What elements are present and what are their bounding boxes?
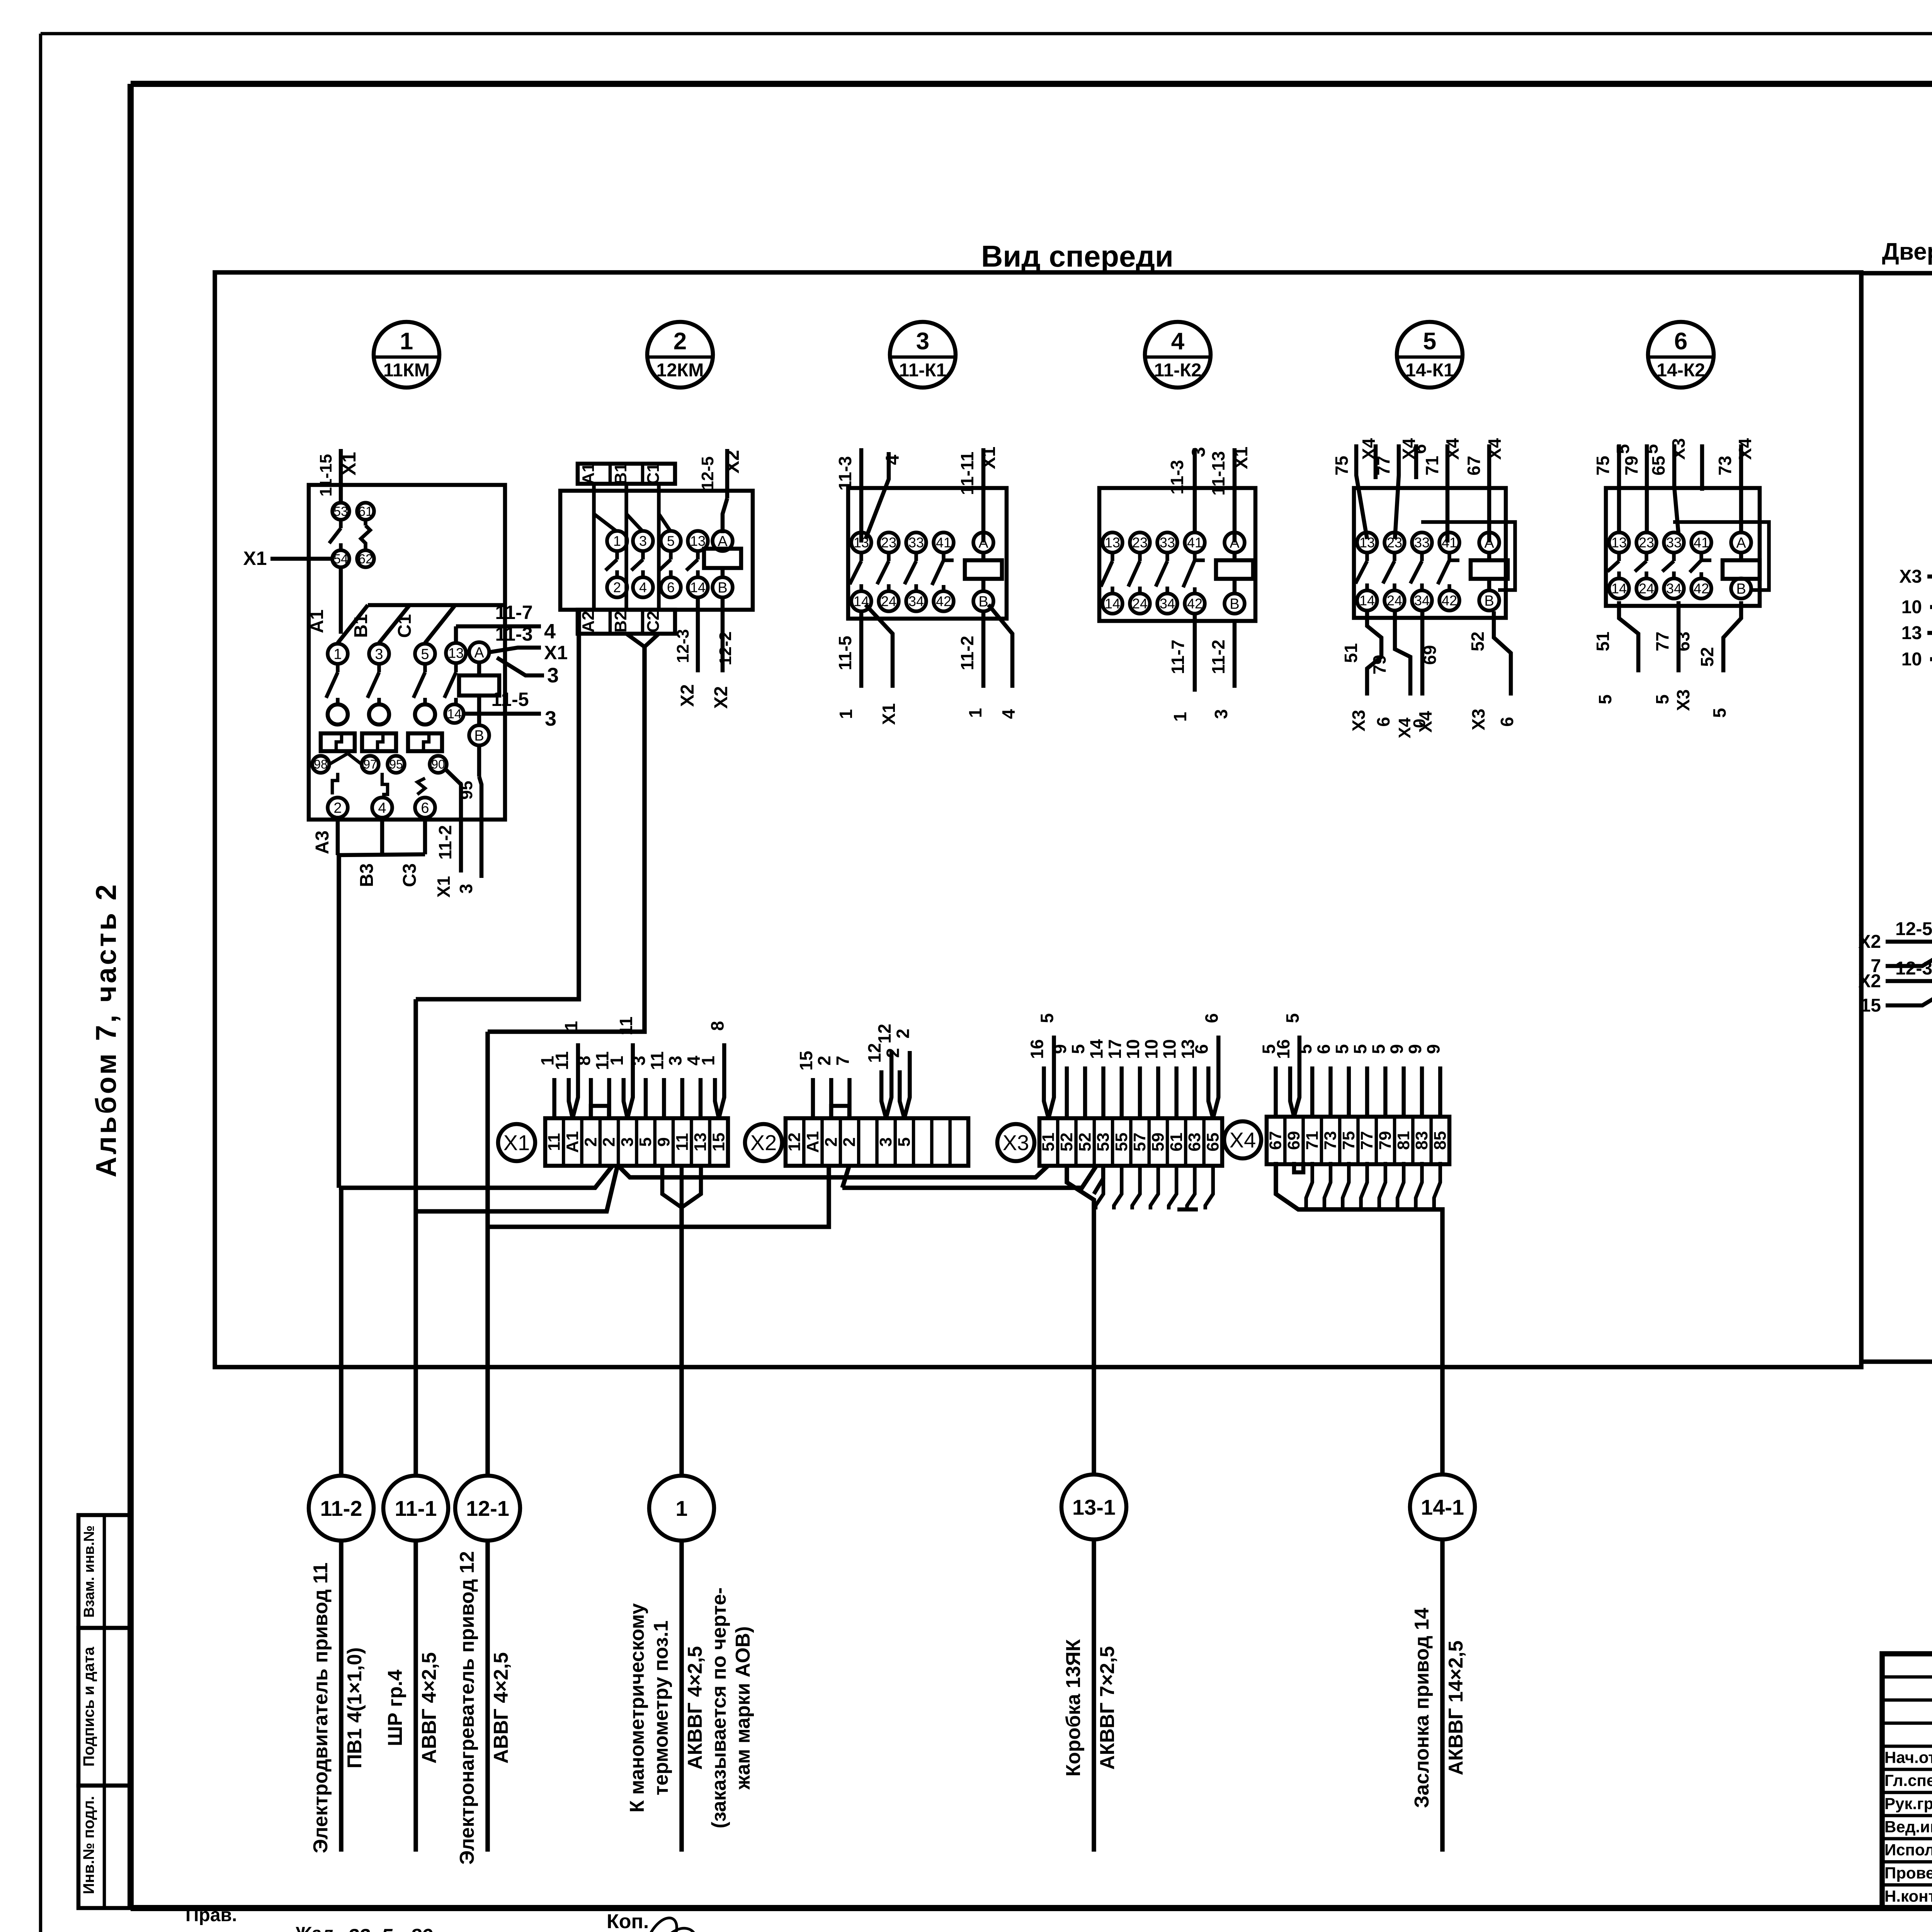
svg-text:12-2: 12-2 xyxy=(716,631,735,665)
position circle 3 11-К1 xyxy=(890,322,956,388)
X2 top jumper wires xyxy=(796,1024,913,1118)
svg-text:Рук.гр.: Рук.гр. xyxy=(1884,1794,1932,1813)
svg-text:5: 5 xyxy=(1613,444,1633,454)
lead 11-2 1 4 from 11-К1 coil B xyxy=(957,605,1019,719)
svg-text:3: 3 xyxy=(629,1056,649,1066)
svg-text:3: 3 xyxy=(1211,709,1231,719)
cable group bottom xyxy=(0,0,0,0)
terminal strip X4 designator circle xyxy=(1224,1121,1261,1158)
svg-text:12: 12 xyxy=(864,1043,884,1063)
svg-text:X4: X4 xyxy=(1485,438,1505,460)
svg-text:X2: X2 xyxy=(1858,971,1881,992)
cable 14-1 line and labels xyxy=(1411,1539,1467,1852)
lead 11-7 1 from 11-К2 contact 42 xyxy=(1168,614,1195,722)
svg-text:(заказывается по черте-: (заказывается по черте- xyxy=(708,1587,730,1828)
relay coil A-B xyxy=(1471,532,1508,611)
svg-text:15: 15 xyxy=(1861,995,1881,1016)
svg-text:5: 5 xyxy=(895,1137,913,1146)
svg-text:X3: X3 xyxy=(1349,710,1369,731)
svg-text:X4: X4 xyxy=(1230,1128,1256,1152)
contactor 2 bottom leads 12-3 12-2 xyxy=(673,597,735,709)
svg-text:X3: X3 xyxy=(1668,438,1689,460)
svg-text:Взам. инв.№: Взам. инв.№ xyxy=(81,1526,97,1618)
svg-text:5: 5 xyxy=(1037,1013,1057,1023)
terminal strip X2 designator circle xyxy=(745,1124,782,1161)
svg-text:11-5: 11-5 xyxy=(835,636,855,670)
svg-text:10: 10 xyxy=(1141,1039,1161,1059)
contactor 2 12КМ feeder cells A2 B2 C2 xyxy=(578,610,675,634)
wire 11-2 cable down xyxy=(339,1188,344,1476)
svg-text:10: 10 xyxy=(1123,1039,1143,1059)
svg-text:42: 42 xyxy=(1694,581,1709,597)
terminal strip X1 designator circle xyxy=(498,1124,535,1161)
svg-text:6: 6 xyxy=(1410,444,1430,454)
svg-text:14: 14 xyxy=(690,580,706,595)
svg-text:5: 5 xyxy=(1282,1013,1303,1023)
11КМ pole contacts xyxy=(326,664,456,705)
label 95 from coil B xyxy=(457,781,476,800)
svg-text:83: 83 xyxy=(1412,1131,1431,1150)
svg-text:X2: X2 xyxy=(721,450,743,473)
cable circle 12-1 xyxy=(455,1476,520,1541)
svg-text:Прав.: Прав. xyxy=(185,1905,237,1925)
svg-text:71: 71 xyxy=(1422,456,1442,475)
wire feeder vertical from 12КМ box xyxy=(416,610,579,999)
svg-text:3: 3 xyxy=(1189,447,1209,457)
svg-text:1: 1 xyxy=(607,1056,627,1066)
svg-text:1: 1 xyxy=(333,646,342,662)
svg-text:A1: A1 xyxy=(579,463,598,485)
svg-text:A3: A3 xyxy=(312,830,333,854)
svg-text:2: 2 xyxy=(613,580,621,595)
svg-text:41: 41 xyxy=(1694,535,1709,551)
svg-text:69: 69 xyxy=(1284,1131,1303,1150)
svg-text:2: 2 xyxy=(581,1137,600,1146)
svg-text:34: 34 xyxy=(908,594,924,609)
position circle 5 14-К1 xyxy=(1397,322,1463,388)
svg-text:13: 13 xyxy=(690,533,706,549)
svg-text:ПВ1 4(1×1,0): ПВ1 4(1×1,0) xyxy=(344,1647,366,1768)
svg-text:Альбом 7, часть 2: Альбом 7, часть 2 xyxy=(90,882,122,1177)
svg-text:33: 33 xyxy=(1666,535,1682,551)
X4 top jumper wires xyxy=(1259,1013,1444,1117)
svg-text:4: 4 xyxy=(883,454,903,465)
svg-text:9: 9 xyxy=(654,1137,673,1146)
contactor 2 12КМ feeder cells A1 B1 C1 xyxy=(578,463,675,610)
svg-text:8: 8 xyxy=(707,1021,727,1031)
svg-text:12-1: 12-1 xyxy=(466,1496,509,1520)
wire X4 cell drops xyxy=(1306,1162,1440,1209)
svg-text:5: 5 xyxy=(667,533,675,549)
svg-text:2: 2 xyxy=(840,1137,859,1146)
svg-text:5: 5 xyxy=(1295,1044,1315,1054)
svg-text:95: 95 xyxy=(389,757,403,771)
svg-text:16: 16 xyxy=(1273,1039,1293,1059)
svg-text:24: 24 xyxy=(881,594,896,609)
svg-text:13: 13 xyxy=(1611,535,1627,551)
svg-text:11-3: 11-3 xyxy=(835,456,855,491)
svg-text:42: 42 xyxy=(1442,593,1457,609)
svg-text:42: 42 xyxy=(936,594,951,609)
button diagonal lead 7 xyxy=(1871,945,1932,976)
svg-text:3: 3 xyxy=(665,1056,685,1066)
svg-text:63: 63 xyxy=(1185,1133,1204,1151)
svg-text:Н.контр.: Н.контр. xyxy=(1884,1887,1932,1905)
svg-text:12: 12 xyxy=(874,1024,895,1043)
svg-text:12-3: 12-3 xyxy=(673,629,692,663)
svg-text:Коп.: Коп. xyxy=(607,1910,649,1932)
svg-text:52: 52 xyxy=(1075,1133,1094,1151)
svg-text:98: 98 xyxy=(314,757,328,771)
front view enclosure rectangle xyxy=(215,272,1861,1367)
handwritten date xyxy=(293,1923,449,1932)
svg-text:2: 2 xyxy=(821,1137,840,1146)
wires 75 79 65 73 into 14-К2 xyxy=(1593,438,1755,534)
svg-text:11-2: 11-2 xyxy=(435,825,455,860)
svg-text:23: 23 xyxy=(881,535,896,551)
svg-text:90: 90 xyxy=(431,757,445,771)
svg-text:B1: B1 xyxy=(611,463,630,485)
svg-text:3: 3 xyxy=(618,1137,637,1146)
11КМ thermal contact 61-62 xyxy=(357,503,374,567)
svg-text:9: 9 xyxy=(1423,1044,1443,1054)
svg-text:77: 77 xyxy=(1373,456,1393,475)
svg-text:C3: C3 xyxy=(400,863,420,887)
svg-text:11: 11 xyxy=(673,1133,692,1151)
svg-text:8: 8 xyxy=(574,1056,594,1066)
cable circle 1 xyxy=(649,1476,714,1541)
wire bus 3074 X2 to X3-52 xyxy=(842,1165,1097,1188)
svg-text:11-3: 11-3 xyxy=(495,623,532,645)
svg-text:11-11: 11-11 xyxy=(957,452,977,495)
svg-text:B: B xyxy=(1736,581,1746,597)
wire thermometer cable 1 from X1 cells 9 11 13 xyxy=(662,1166,701,1476)
relay box xyxy=(1606,488,1760,606)
wire 11-1 cable down xyxy=(413,999,418,1476)
wire 12-5 X2 into contactor 2 coil xyxy=(698,449,743,533)
wire 13-1 cable from X3 xyxy=(1067,1166,1103,1475)
svg-text:Провер.: Провер. xyxy=(1884,1864,1932,1882)
svg-text:51: 51 xyxy=(1593,631,1613,651)
11КМ terminals 2 4 6 xyxy=(328,798,435,818)
svg-text:X3: X3 xyxy=(1899,566,1922,587)
X2 jumper loop cells 2-2 xyxy=(831,1106,849,1118)
svg-text:Дверь ящика(вид со стороны мон: Дверь ящика(вид со стороны монтажа) xyxy=(1882,238,1932,265)
svg-text:2: 2 xyxy=(814,1056,834,1066)
block 13-HG xyxy=(0,0,0,0)
svg-text:11-15: 11-15 xyxy=(316,454,335,497)
svg-text:1: 1 xyxy=(561,1021,581,1031)
cable 13-1 line and labels xyxy=(1062,1539,1119,1852)
svg-text:3: 3 xyxy=(639,533,647,549)
svg-text:3: 3 xyxy=(876,1137,895,1146)
wire long bus 3047 X1 to X3-51 xyxy=(618,1166,1048,1177)
wire from 54 down xyxy=(339,567,343,634)
leads 51 X3 79 69 52 from 14-К1 xyxy=(1341,611,1517,738)
button 12-SB2 xyxy=(0,0,0,0)
svg-text:9: 9 xyxy=(1050,1044,1070,1054)
11КМ trip linkages xyxy=(329,753,425,794)
svg-text:23: 23 xyxy=(1639,535,1654,551)
svg-text:24: 24 xyxy=(1639,581,1654,597)
contactor 5 14-К1 xyxy=(0,0,0,0)
11КМ bottom lead 11-2 xyxy=(434,769,481,898)
cable circle 11-2 xyxy=(309,1476,374,1541)
X1 jumper loop cells 2-2 xyxy=(591,1106,609,1118)
svg-text:X1: X1 xyxy=(979,447,999,469)
svg-text:5: 5 xyxy=(1652,694,1672,704)
position circle 2 12КМ xyxy=(647,322,713,388)
button diagonal lead 15 xyxy=(1861,985,1932,1016)
block 14-HG xyxy=(0,0,0,0)
svg-text:6: 6 xyxy=(1191,1044,1211,1054)
lamp 11-HL xyxy=(0,0,0,0)
lead 11-5 1 X1 from 11-К1 contact 14 xyxy=(835,605,899,725)
11КМ phase slant feeders A1 B1 C1 xyxy=(307,605,505,643)
svg-text:жам марки АОВ): жам марки АОВ) xyxy=(732,1626,754,1790)
svg-text:6: 6 xyxy=(1674,328,1687,355)
relay coil A-B xyxy=(965,532,1002,611)
svg-text:65: 65 xyxy=(1203,1133,1222,1151)
svg-text:75: 75 xyxy=(1332,456,1352,475)
main title block xyxy=(1882,1654,1932,1908)
svg-text:X2: X2 xyxy=(711,686,731,709)
relay contacts 13 23 33 41 xyxy=(1101,532,1205,614)
svg-text:4: 4 xyxy=(1171,328,1185,355)
svg-text:97: 97 xyxy=(363,757,377,771)
svg-text:X3: X3 xyxy=(1468,709,1488,730)
wire X3 group drops to bus xyxy=(1096,1166,1213,1209)
cable 12-1 line and labels xyxy=(456,1541,512,1865)
svg-text:11КМ: 11КМ xyxy=(383,360,430,381)
svg-text:71: 71 xyxy=(1303,1131,1321,1150)
svg-text:Вид спереди: Вид спереди xyxy=(981,239,1173,273)
svg-text:X1: X1 xyxy=(243,548,267,569)
leads 51 77 63 52 from 14-К2 xyxy=(1593,601,1741,718)
svg-text:B3: B3 xyxy=(357,863,377,887)
cable circle 13-1 xyxy=(1061,1475,1126,1539)
position circle 4 11-К2 xyxy=(1145,322,1211,388)
svg-text:12: 12 xyxy=(785,1133,804,1151)
wire bus X1 cell 2b xyxy=(416,1166,617,1211)
svg-text:55: 55 xyxy=(1112,1133,1131,1151)
svg-text:1: 1 xyxy=(1170,712,1190,722)
svg-text:B1: B1 xyxy=(351,614,371,638)
svg-text:73: 73 xyxy=(1715,456,1735,475)
contactor 2 coil A-B xyxy=(704,531,741,597)
svg-text:75: 75 xyxy=(1593,456,1613,475)
svg-text:Инв.№ подл.: Инв.№ подл. xyxy=(80,1796,97,1894)
svg-text:11-К2: 11-К2 xyxy=(1154,360,1202,381)
svg-text:A: A xyxy=(1736,535,1746,551)
svg-text:14-К2: 14-К2 xyxy=(1656,360,1705,381)
relay coil A-B xyxy=(1723,532,1760,599)
button 14-SB1 xyxy=(0,0,0,0)
wires 75 77 71 67 X4 into 14-К1 xyxy=(1332,438,1505,543)
svg-text:X4: X4 xyxy=(1415,711,1435,733)
cable circle 11-1 xyxy=(383,1476,448,1541)
svg-text:X2: X2 xyxy=(1858,932,1881,952)
svg-text:3: 3 xyxy=(545,707,556,730)
svg-text:2: 2 xyxy=(600,1137,619,1146)
svg-text:52: 52 xyxy=(1697,647,1717,667)
svg-text:75: 75 xyxy=(1339,1131,1358,1150)
relay contacts 13 23 33 41 xyxy=(1607,532,1711,599)
svg-text:2: 2 xyxy=(893,1029,913,1039)
wire bus to X2 A1 xyxy=(488,1164,829,1227)
svg-text:3: 3 xyxy=(456,884,476,894)
svg-text:79: 79 xyxy=(1369,655,1389,674)
svg-text:59: 59 xyxy=(1148,1133,1167,1151)
wire bus X1 to left xyxy=(339,1166,612,1188)
svg-text:51: 51 xyxy=(1341,643,1361,663)
svg-text:5: 5 xyxy=(421,646,429,662)
lead 11-2 3 from 11-К2 coil B xyxy=(1208,621,1235,719)
svg-text:АВВГ 4×2,5: АВВГ 4×2,5 xyxy=(418,1652,440,1764)
wire 11-3 4 into 11-К1 xyxy=(835,448,903,543)
svg-text:B2: B2 xyxy=(611,611,630,633)
wire feeder merge B2 C2 xyxy=(488,634,659,1032)
svg-text:Жал: Жал xyxy=(293,1923,333,1932)
contactor 4 11-К2 xyxy=(0,0,0,0)
cable 11-1 line and labels xyxy=(384,1541,440,1852)
svg-text:5: 5 xyxy=(1709,708,1730,718)
svg-text:14-К1: 14-К1 xyxy=(1405,360,1454,381)
wire 14-1 cable from X4 xyxy=(1276,1162,1442,1475)
svg-text:Электронагреватель привод 12: Электронагреватель привод 12 xyxy=(456,1551,478,1864)
svg-text:2: 2 xyxy=(673,328,687,355)
svg-text:6: 6 xyxy=(1373,717,1393,727)
svg-text:4: 4 xyxy=(998,709,1019,719)
relay contacts 13 23 33 41 xyxy=(1355,532,1459,611)
svg-text:11-2: 11-2 xyxy=(320,1496,362,1520)
button 13-SB2 xyxy=(0,0,0,0)
svg-text:6: 6 xyxy=(1314,1044,1334,1054)
wire X3 right drop 3047 xyxy=(1177,1207,1198,1212)
svg-text:41: 41 xyxy=(1187,535,1202,551)
terminal strip X3 designator circle xyxy=(997,1124,1034,1161)
svg-text:X2: X2 xyxy=(750,1131,777,1155)
svg-text:X1: X1 xyxy=(338,452,360,475)
svg-text:22 .5 - 89 г: 22 .5 - 89 г xyxy=(347,1925,449,1932)
door enclosure rectangle xyxy=(1861,273,1932,1362)
svg-text:24: 24 xyxy=(1132,596,1148,612)
contactor 3 11-К1 xyxy=(0,0,0,0)
svg-text:5: 5 xyxy=(1641,444,1662,454)
svg-text:57: 57 xyxy=(1130,1133,1149,1151)
relay box xyxy=(1354,488,1506,618)
svg-text:5: 5 xyxy=(1595,694,1615,704)
11КМ pole terminals 1 3 5 13 xyxy=(328,643,466,664)
svg-text:Вед.инж.: Вед.инж. xyxy=(1884,1818,1932,1836)
svg-text:67: 67 xyxy=(1464,456,1484,475)
svg-text:51: 51 xyxy=(1039,1133,1058,1151)
svg-text:14-1: 14-1 xyxy=(1421,1495,1464,1519)
svg-text:53: 53 xyxy=(333,504,348,519)
svg-text:14: 14 xyxy=(447,707,462,721)
svg-text:5: 5 xyxy=(636,1137,655,1146)
svg-text:11: 11 xyxy=(647,1051,667,1070)
svg-text:12КМ: 12КМ xyxy=(656,360,704,381)
svg-text:X1: X1 xyxy=(503,1131,530,1155)
svg-text:6: 6 xyxy=(667,580,675,595)
cable circle 14-1 xyxy=(1410,1475,1475,1539)
svg-text:4: 4 xyxy=(378,800,386,816)
svg-text:34: 34 xyxy=(1414,593,1430,609)
svg-text:5: 5 xyxy=(1423,328,1436,355)
wire A3 bus down from 11КМ xyxy=(337,855,341,1188)
svg-text:A1: A1 xyxy=(307,609,327,633)
svg-text:Заслонка привод 14: Заслонка привод 14 xyxy=(1411,1608,1433,1808)
button lead bottom X2 xyxy=(1858,958,1932,992)
svg-text:15: 15 xyxy=(709,1133,728,1151)
svg-text:15: 15 xyxy=(796,1051,816,1070)
svg-text:11-7: 11-7 xyxy=(1168,639,1188,674)
svg-text:1: 1 xyxy=(965,708,985,718)
button lead top X2 xyxy=(1858,919,1932,952)
svg-text:АКВВГ 14×2,5: АКВВГ 14×2,5 xyxy=(1445,1641,1467,1776)
sidebar box Inv podl xyxy=(78,1786,131,1908)
svg-text:Подпись и дата: Подпись и дата xyxy=(80,1646,97,1767)
svg-text:A: A xyxy=(474,645,484,661)
relay box xyxy=(848,488,1007,619)
svg-text:АКВВГ 7×2,5: АКВВГ 7×2,5 xyxy=(1096,1646,1119,1770)
X4 jumper stub under cell 69 xyxy=(1294,1162,1303,1172)
svg-text:5: 5 xyxy=(1350,1044,1370,1054)
lamp 12-HL xyxy=(0,0,0,0)
svg-text:12-5: 12-5 xyxy=(1895,919,1932,939)
svg-text:42: 42 xyxy=(1187,596,1202,612)
wire 11-3 3 into 11-К2 xyxy=(1167,447,1209,532)
svg-text:5: 5 xyxy=(1332,1044,1352,1054)
svg-text:61: 61 xyxy=(1167,1133,1186,1151)
svg-text:X3: X3 xyxy=(1673,689,1693,711)
svg-text:Коробка 13ЯК: Коробка 13ЯК xyxy=(1062,1639,1085,1777)
svg-text:11: 11 xyxy=(545,1133,564,1151)
svg-text:33: 33 xyxy=(1414,535,1430,551)
svg-text:6: 6 xyxy=(1201,1013,1221,1023)
svg-text:B: B xyxy=(1230,596,1239,612)
svg-text:85: 85 xyxy=(1430,1131,1449,1150)
svg-text:1: 1 xyxy=(836,709,856,719)
contactor 2 12КМ box xyxy=(560,491,753,610)
svg-text:B: B xyxy=(978,594,988,610)
contactor 2 poles 1-2 3-4 5-6 13-14 xyxy=(605,531,708,597)
11КМ coil A-B xyxy=(459,642,499,777)
svg-text:X4: X4 xyxy=(1442,438,1463,460)
label 11-3 X1 3 from coil A xyxy=(489,623,568,687)
svg-text:A1: A1 xyxy=(563,1131,582,1153)
svg-text:5: 5 xyxy=(1368,1044,1388,1054)
svg-text:1: 1 xyxy=(613,533,621,549)
svg-text:14: 14 xyxy=(1359,593,1375,609)
svg-text:77: 77 xyxy=(1357,1131,1376,1150)
svg-text:Электродвигатель привод 11: Электродвигатель привод 11 xyxy=(310,1563,332,1854)
relay coil A-B xyxy=(1216,532,1253,614)
svg-text:X2: X2 xyxy=(677,684,698,707)
terminal strip X1 xyxy=(545,1118,728,1166)
svg-text:11: 11 xyxy=(552,1051,572,1070)
svg-text:4: 4 xyxy=(639,580,647,595)
button 14-SB2 xyxy=(0,0,0,0)
svg-text:17: 17 xyxy=(1105,1039,1125,1059)
handwritten Kop signature xyxy=(607,1910,740,1932)
svg-text:ШР гр.4: ШР гр.4 xyxy=(384,1670,406,1746)
svg-text:67: 67 xyxy=(1266,1131,1285,1150)
position circle 6 14-К2 xyxy=(1648,322,1714,388)
X1 top jumper wires xyxy=(537,1017,728,1118)
svg-text:B: B xyxy=(474,728,484,744)
